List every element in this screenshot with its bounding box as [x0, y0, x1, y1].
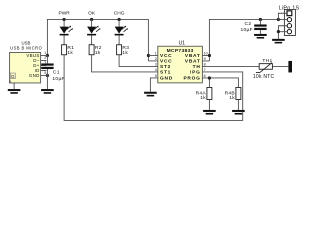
- USB shield stub: [13, 83, 15, 89]
- ground under R4B: [232, 110, 245, 115]
- svg-text:10µF: 10µF: [240, 27, 252, 33]
- svg-text:2: 2: [155, 57, 157, 61]
- svg-text:!PG: !PG: [190, 70, 201, 76]
- svg-text:5: 5: [155, 74, 157, 78]
- svg-text:8: 8: [204, 62, 206, 66]
- USB pin numbers: [44, 51, 46, 75]
- svg-text:10: 10: [204, 51, 208, 55]
- svg-text:PROG: PROG: [183, 76, 200, 82]
- svg-text:C1: C1: [53, 69, 60, 75]
- node LiPo ground junction: [277, 30, 280, 33]
- svg-text:C2: C2: [245, 21, 252, 27]
- wire R2 to ST1: [92, 55, 158, 72]
- svg-text:ST1: ST1: [160, 70, 171, 76]
- wire LiPo pins 3-4 to ground: [278, 26, 287, 39]
- svg-text:GND: GND: [29, 73, 40, 78]
- svg-text:4: 4: [155, 68, 157, 72]
- resistor R4B 1k: [225, 87, 241, 110]
- svg-text:VBAT: VBAT: [185, 59, 201, 65]
- wire R3 to ST2: [119, 55, 158, 67]
- wire VCC stubs: [148, 55, 157, 61]
- svg-text:1: 1: [155, 51, 157, 55]
- svg-text:9: 9: [204, 57, 206, 61]
- wire TH pin to thermistor: [202, 65, 288, 67]
- ground under IC: [144, 92, 157, 97]
- node VBAT junctions: [208, 18, 280, 57]
- pin 3 D+ stub: [41, 64, 47, 66]
- svg-text:USB: USB: [21, 40, 30, 45]
- wire LiPo pins 1-2 to VBAT: [278, 13, 287, 19]
- svg-text:10k NTC: 10k NTC: [253, 74, 275, 80]
- svg-text:TH: TH: [193, 64, 201, 70]
- svg-text:USB B MICRO: USB B MICRO: [10, 46, 42, 51]
- svg-text:5: 5: [44, 71, 46, 75]
- svg-text:VBAT: VBAT: [185, 53, 201, 59]
- svg-text:VCC: VCC: [160, 53, 172, 59]
- svg-text:ST2: ST2: [160, 64, 171, 70]
- resistor R1 1k: [62, 45, 75, 56]
- LED D3 CHG: [115, 19, 128, 44]
- svg-text:VCC: VCC: [160, 59, 172, 65]
- svg-text:1k: 1k: [95, 50, 101, 56]
- svg-text:MCP73833: MCP73833: [167, 48, 194, 54]
- node VBUS junction dots on rail: [46, 18, 150, 77]
- resistor R4A 1k: [196, 87, 212, 110]
- wire IC GND to ground: [150, 78, 157, 92]
- LED D1 PWR: [60, 19, 73, 44]
- svg-text:G: G: [11, 74, 15, 79]
- LED D2 OK: [87, 19, 100, 44]
- pin 5 GND wire: [41, 74, 48, 76]
- ground under USB shield: [8, 89, 21, 94]
- svg-text:2: 2: [44, 56, 46, 60]
- resistor R2 1k: [89, 45, 102, 56]
- svg-text:6: 6: [204, 74, 206, 78]
- pin 1 VBUS wire: [41, 54, 48, 56]
- svg-text:1k: 1k: [122, 50, 128, 56]
- ground under R4A: [203, 110, 216, 115]
- svg-text:1: 1: [44, 51, 46, 55]
- wire R1 to PG bottom rail: [64, 55, 243, 121]
- connector J1 USB B MICRO: [9, 40, 42, 84]
- ground under C1: [41, 89, 54, 94]
- pin 4 ID stub: [41, 69, 47, 71]
- svg-text:OK: OK: [88, 10, 96, 16]
- svg-text:6: 6: [9, 80, 11, 84]
- node TH terminal pad: [288, 61, 292, 72]
- wire VBUS rail top-left: [47, 19, 148, 61]
- svg-text:7: 7: [204, 68, 206, 72]
- capacitor C2 10uF: [240, 19, 266, 34]
- svg-text:1k: 1k: [67, 50, 73, 56]
- ground under C2: [254, 34, 267, 39]
- thermistor TH1 10k NTC: [253, 58, 275, 80]
- svg-text:1k: 1k: [200, 95, 206, 101]
- pin 2 D- stub: [41, 59, 47, 61]
- wire VBAT rail right: [202, 19, 278, 61]
- IC U1 MCP73833 charge controller: [155, 41, 208, 83]
- connector J2 LiPo 1S: [279, 6, 300, 36]
- svg-text:PWR: PWR: [58, 10, 70, 16]
- svg-text:GND: GND: [160, 76, 173, 82]
- resistor R3 1k: [117, 45, 130, 56]
- svg-text:CHG: CHG: [114, 10, 125, 16]
- svg-text:10µF: 10µF: [52, 76, 64, 82]
- svg-text:3: 3: [155, 62, 157, 66]
- node PROG junction: [208, 76, 211, 79]
- ground under LiPo connector: [272, 39, 285, 44]
- svg-text:1k: 1k: [229, 95, 235, 101]
- capacitor C1 10uF: [41, 55, 65, 89]
- wire PROG to R4A R4B: [202, 78, 238, 88]
